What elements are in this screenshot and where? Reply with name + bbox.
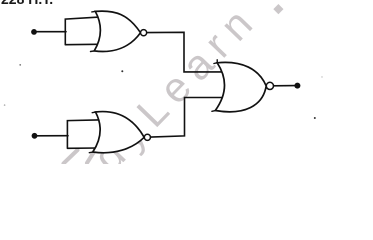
svg-text:228 H.T.: 228 H.T. xyxy=(1,0,53,7)
